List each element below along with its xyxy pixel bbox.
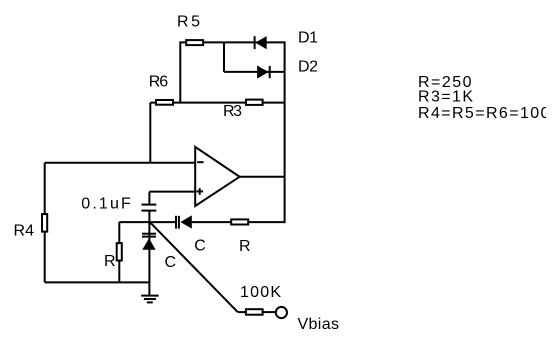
wire left branch down to resistor R xyxy=(118,222,120,245)
note R4=R5=R6=100K clipped xyxy=(418,105,560,122)
wire R5/D1 top row xyxy=(180,41,285,43)
resistor R5 xyxy=(186,40,203,45)
diode D1 xyxy=(255,36,267,49)
terminal Vbias xyxy=(276,307,287,318)
wire inverting input row xyxy=(45,162,195,164)
capacitor 0.1uF xyxy=(142,205,157,211)
wire left leg of R5 down to R6/R3 row xyxy=(179,41,181,102)
svg-text:Vbias: Vbias xyxy=(298,316,340,333)
svg-text:D2: D2 xyxy=(298,59,318,76)
wire 100K row left stub xyxy=(238,311,247,313)
resistor R6 xyxy=(156,100,173,105)
wire 100K to Vbias terminal xyxy=(263,311,276,313)
wire R6 left leg down to inverting input row xyxy=(149,103,151,163)
wire R4 left column xyxy=(44,163,46,283)
svg-text:R: R xyxy=(239,238,251,255)
svg-text:R3=1K: R3=1K xyxy=(418,89,473,106)
svg-text:R4: R4 xyxy=(14,223,35,240)
wire bottom row to ground column xyxy=(45,281,151,283)
wire R6/R3 row xyxy=(150,102,285,104)
wire right vertical rail xyxy=(284,41,286,223)
diode D2 xyxy=(257,66,270,79)
varactor C vertical xyxy=(142,234,156,250)
wire varactor column down to ground xyxy=(148,222,150,295)
wire junction row right part through R to rail xyxy=(192,221,286,223)
resistor R lower-left xyxy=(117,243,122,260)
svg-text:100K: 100K xyxy=(240,284,281,301)
wire diagonal to 100K xyxy=(150,222,238,312)
wire op-amp output row xyxy=(240,176,286,178)
svg-text:C: C xyxy=(194,237,206,254)
ground xyxy=(141,296,158,303)
svg-text:C: C xyxy=(165,254,177,271)
op-amp U1 xyxy=(195,147,239,206)
resistor 100K xyxy=(246,309,263,315)
resistor R3 xyxy=(246,100,263,105)
svg-text:0.1uF: 0.1uF xyxy=(81,195,131,212)
wire junction leg down to D2 row xyxy=(223,42,225,72)
wire below resistor R to bottom row xyxy=(118,260,120,283)
wire D2 row xyxy=(224,71,286,73)
wire junction row left part xyxy=(119,221,175,223)
resistor R4 xyxy=(42,214,47,232)
wire capacitor bottom to junction xyxy=(148,212,150,223)
svg-text:R3: R3 xyxy=(223,103,242,120)
svg-text:R5: R5 xyxy=(177,14,200,31)
svg-text:R: R xyxy=(104,253,116,270)
wire non-inverting input row xyxy=(149,191,195,193)
svg-text:R4=R5=R6=100K: R4=R5=R6=100K xyxy=(418,105,560,122)
svg-text:R6: R6 xyxy=(149,73,169,90)
wire stub plus input to capacitor xyxy=(148,192,150,204)
resistor R lower-right xyxy=(231,219,248,224)
varactor C horizontal xyxy=(176,215,192,228)
svg-text:D1: D1 xyxy=(298,30,318,47)
